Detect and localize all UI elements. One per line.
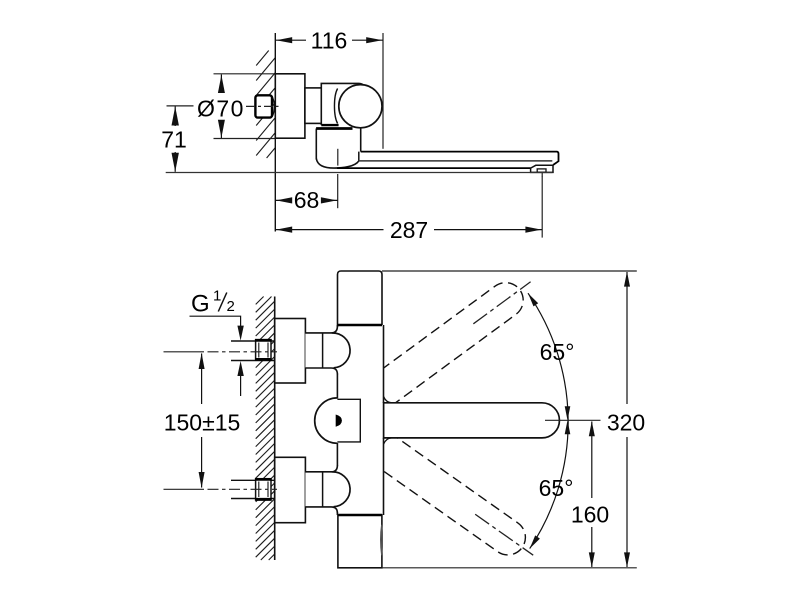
body main section fill bbox=[338, 325, 384, 515]
svg-text:68: 68 bbox=[294, 187, 320, 213]
inner curvature line bbox=[381, 525, 382, 555]
mousseur rect bbox=[537, 169, 546, 172]
dim 287 bbox=[541, 176, 543, 238]
swivel range arc bbox=[528, 293, 568, 548]
svg-text:65°: 65° bbox=[540, 339, 575, 365]
upper fitting square (front view) bbox=[256, 340, 271, 360]
svg-text:287: 287 bbox=[390, 217, 428, 243]
spout base center tick (top view) bbox=[337, 149, 339, 166]
svg-text:71: 71 bbox=[161, 127, 187, 153]
aerator center tick bbox=[541, 173, 543, 177]
dim G 1/2 leader bbox=[190, 316, 241, 327]
spout base right edges (top view) bbox=[360, 129, 362, 152]
lower fitting square (front view) bbox=[256, 479, 271, 500]
long reference line under spout (71 bottom extension) bbox=[166, 172, 553, 174]
wall escutcheon plate (top view) bbox=[275, 74, 305, 138]
fitting centerline (top view) bbox=[246, 105, 279, 107]
dashed swivel spout (down position) bbox=[369, 433, 543, 570]
supply pipe upper (front view) bbox=[231, 340, 275, 342]
control knob circle (top view) bbox=[339, 85, 382, 128]
wall surface line (front view) bbox=[274, 297, 276, 561]
connector neck (top view) bbox=[305, 88, 321, 124]
spout bottom line bbox=[337, 167, 531, 169]
spout mid line bbox=[359, 160, 553, 162]
cylinder shoulder arc (top view) bbox=[334, 89, 337, 124]
supply pipe lower (front view) bbox=[231, 479, 275, 481]
joint line under top section (thick) bbox=[338, 324, 383, 327]
svg-text:Ø70: Ø70 bbox=[197, 95, 245, 121]
wall surface line (top view) bbox=[274, 33, 276, 232]
spout centerline extension at tip bbox=[545, 419, 601, 421]
dim 160 bbox=[591, 422, 593, 499]
dim 68 bbox=[337, 174, 339, 208]
dashed swivel spout (up position) bbox=[369, 268, 541, 408]
wall hatching (front view) bbox=[256, 297, 275, 561]
svg-text:65°: 65° bbox=[539, 475, 574, 501]
svg-text:116: 116 bbox=[311, 28, 348, 54]
wall hatching (top view) bbox=[256, 51, 275, 159]
lower escutcheon (front view) bbox=[275, 457, 306, 522]
svg-text:G: G bbox=[191, 291, 210, 318]
aerator housing at spout tip (top view) bbox=[531, 165, 553, 172]
svg-text:160: 160 bbox=[571, 501, 609, 527]
dim 71 bbox=[167, 105, 194, 107]
lower pipe centerline bbox=[164, 488, 205, 490]
lower inlet cone + union nut (front view) bbox=[305, 472, 350, 507]
svg-text:2: 2 bbox=[227, 298, 235, 315]
solid spout (front view) bbox=[384, 403, 560, 438]
spout base (top view) bbox=[316, 129, 360, 169]
upper escutcheon (front view) bbox=[275, 319, 306, 384]
svg-text:320: 320 bbox=[607, 409, 645, 435]
spout base top edge (thick) bbox=[316, 127, 352, 130]
body top section (front view) bbox=[338, 271, 383, 325]
joint line (thick) bbox=[338, 514, 382, 517]
sensor window (front view) bbox=[337, 399, 360, 442]
infrared sensor dot bbox=[336, 415, 342, 427]
inlet fitting square in wall (top view) bbox=[272, 97, 274, 117]
spout root fillets bbox=[384, 397, 392, 403]
upper pipe centerline bbox=[164, 351, 205, 353]
extension lines for dim 70 diameter bbox=[214, 73, 276, 75]
upper inlet cone + union nut (front view) bbox=[305, 333, 350, 368]
bottom outlet piece (front view) bbox=[338, 515, 382, 568]
dim 150±15 bbox=[201, 354, 203, 405]
svg-text:1: 1 bbox=[213, 288, 221, 305]
svg-text:150±15: 150±15 bbox=[164, 409, 241, 435]
top reference line (320 extension) bbox=[382, 270, 637, 272]
dim 70 diameter bbox=[220, 75, 222, 94]
body main section edges bbox=[336, 325, 338, 327]
cartridge housing (top view) bbox=[321, 83, 366, 125]
spout (top view) bbox=[361, 152, 559, 165]
bottom reference line (320/160 extension) bbox=[382, 567, 637, 569]
dim 116 bbox=[382, 33, 384, 149]
dim 320 bbox=[626, 272, 628, 404]
